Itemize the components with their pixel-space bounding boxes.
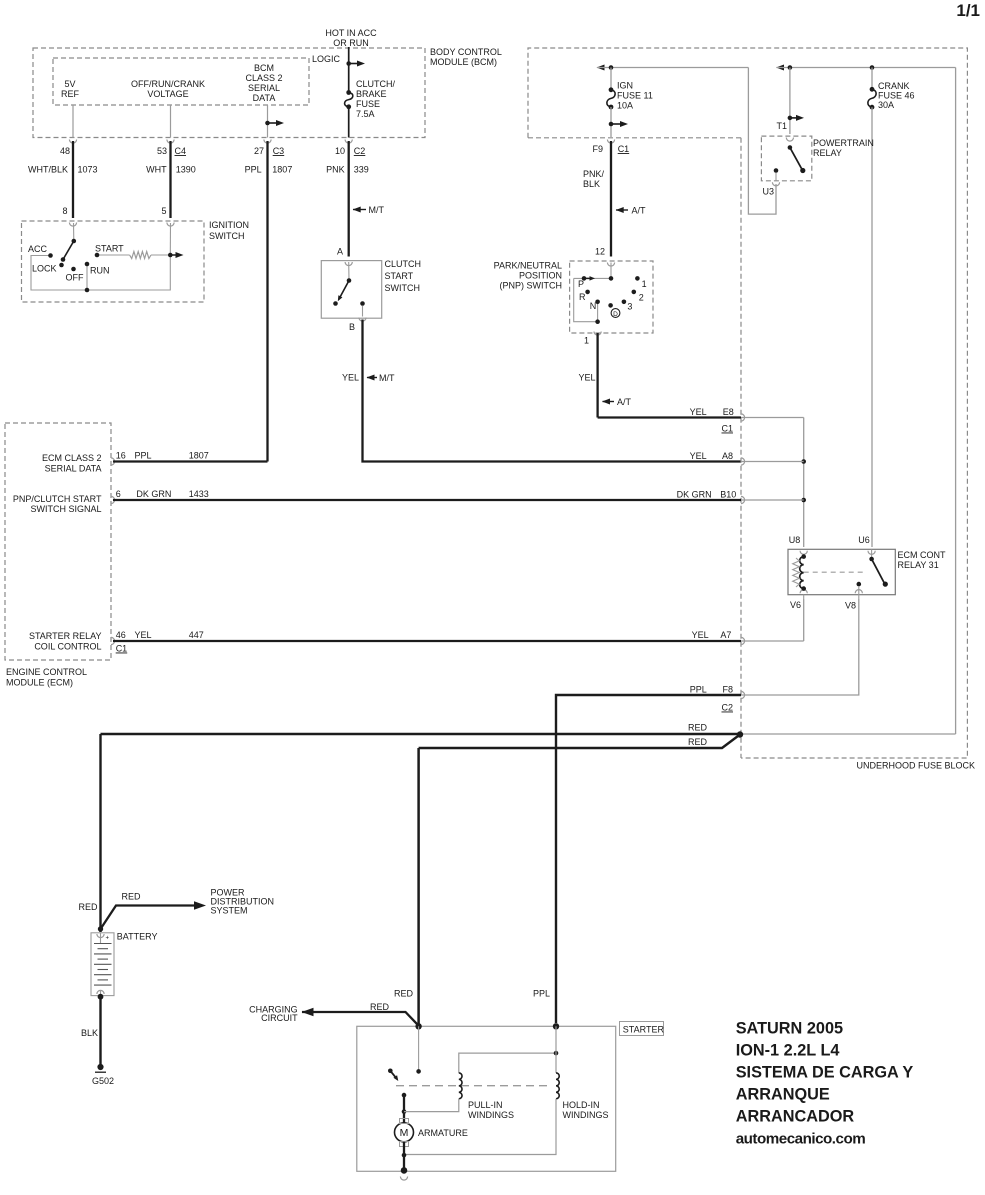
svg-text:C1: C1 (116, 644, 128, 654)
svg-text:447: 447 (189, 630, 204, 640)
svg-text:PARK/NEUTRAL: PARK/NEUTRAL (494, 261, 562, 271)
svg-text:V8: V8 (845, 601, 856, 611)
svg-text:SERIAL DATA: SERIAL DATA (45, 464, 102, 474)
svg-text:A/T: A/T (632, 206, 647, 216)
svg-text:B10: B10 (720, 490, 736, 500)
svg-text:VOLTAGE: VOLTAGE (147, 89, 188, 99)
svg-text:5V: 5V (64, 79, 75, 89)
svg-text:1073: 1073 (78, 165, 98, 175)
svg-text:A: A (337, 247, 343, 257)
svg-text:46: 46 (116, 630, 126, 640)
svg-text:PPL: PPL (245, 165, 262, 175)
svg-text:CLUTCH/: CLUTCH/ (356, 79, 396, 89)
svg-text:COIL CONTROL: COIL CONTROL (34, 642, 101, 652)
svg-text:SERIAL: SERIAL (248, 83, 280, 93)
svg-text:M/T: M/T (379, 373, 395, 383)
svg-text:LOCK: LOCK (32, 264, 57, 274)
svg-text:N: N (590, 301, 597, 311)
svg-text:27: 27 (254, 146, 264, 156)
svg-text:FUSE 11: FUSE 11 (617, 91, 653, 101)
svg-text:ARMATURE: ARMATURE (418, 1128, 468, 1138)
svg-text:ECM CLASS 2: ECM CLASS 2 (42, 453, 102, 463)
svg-text:BODY CONTROL: BODY CONTROL (430, 47, 502, 57)
svg-text:U6: U6 (858, 535, 870, 545)
svg-text:V6: V6 (790, 600, 801, 610)
svg-text:10A: 10A (617, 101, 633, 111)
svg-text:BCM: BCM (254, 63, 274, 73)
svg-text:WINDINGS: WINDINGS (468, 1110, 514, 1120)
svg-text:STARTER: STARTER (623, 1025, 665, 1035)
svg-text:PPL: PPL (690, 685, 707, 695)
svg-text:IGN: IGN (617, 81, 633, 91)
svg-text:MODULE (BCM): MODULE (BCM) (430, 57, 497, 67)
svg-text:RED: RED (370, 1002, 390, 1012)
svg-text:+: + (106, 936, 110, 942)
svg-text:UNDERHOOD FUSE BLOCK: UNDERHOOD FUSE BLOCK (856, 761, 975, 771)
svg-text:CLUTCH: CLUTCH (385, 259, 422, 269)
svg-text:YEL: YEL (690, 451, 707, 461)
svg-text:ENGINE CONTROL: ENGINE CONTROL (6, 667, 87, 677)
svg-text:C2: C2 (721, 703, 733, 713)
svg-text:30A: 30A (878, 100, 894, 110)
svg-text:A/T: A/T (617, 397, 632, 407)
svg-text:RED: RED (688, 737, 708, 747)
svg-text:POSITION: POSITION (519, 271, 562, 281)
svg-text:C2: C2 (354, 146, 366, 156)
svg-text:6: 6 (116, 489, 121, 499)
svg-text:48: 48 (60, 146, 70, 156)
svg-text:16: 16 (116, 451, 126, 461)
svg-text:PNP/CLUTCH START: PNP/CLUTCH START (13, 494, 102, 504)
svg-text:F8: F8 (722, 685, 733, 695)
svg-text:SWITCH: SWITCH (385, 283, 421, 293)
svg-text:1433: 1433 (189, 489, 209, 499)
svg-text:CIRCUIT: CIRCUIT (261, 1013, 298, 1023)
svg-text:DK GRN: DK GRN (136, 489, 171, 499)
svg-text:5: 5 (161, 206, 166, 216)
svg-text:PPL: PPL (533, 989, 550, 999)
svg-text:SWITCH: SWITCH (209, 231, 245, 241)
svg-text:SISTEMA DE CARGA Y: SISTEMA DE CARGA Y (736, 1064, 914, 1082)
svg-text:1390: 1390 (176, 165, 196, 175)
svg-text:PULL-IN: PULL-IN (468, 1100, 503, 1110)
svg-text:C4: C4 (175, 146, 187, 156)
svg-text:2: 2 (639, 293, 644, 303)
svg-text:RUN: RUN (90, 266, 110, 276)
svg-text:START: START (95, 244, 124, 254)
svg-text:PNK: PNK (326, 165, 345, 175)
svg-text:IGNITION: IGNITION (209, 220, 249, 230)
svg-text:POWERTRAIN: POWERTRAIN (813, 138, 874, 148)
svg-text:WHT: WHT (146, 165, 167, 175)
svg-text:automecanico.com: automecanico.com (736, 1131, 866, 1148)
svg-text:SATURN 2005: SATURN 2005 (736, 1020, 843, 1038)
svg-text:RED: RED (394, 989, 414, 999)
svg-text:C1: C1 (721, 424, 733, 434)
svg-text:REF: REF (61, 89, 80, 99)
svg-text:3: 3 (627, 302, 632, 312)
svg-text:CLASS 2: CLASS 2 (245, 73, 282, 83)
svg-text:M: M (400, 1127, 409, 1139)
svg-text:BATTERY: BATTERY (117, 932, 158, 942)
svg-text:WHT/BLK: WHT/BLK (28, 165, 68, 175)
svg-text:FUSE 46: FUSE 46 (878, 91, 915, 101)
svg-text:BLK: BLK (583, 179, 600, 189)
svg-text:10: 10 (335, 146, 345, 156)
svg-text:U8: U8 (789, 535, 801, 545)
svg-text:RED: RED (122, 892, 142, 902)
svg-text:F9: F9 (592, 144, 603, 154)
svg-text:HOLD-IN: HOLD-IN (563, 1100, 600, 1110)
svg-text:PNK/: PNK/ (583, 169, 605, 179)
svg-text:ION-1 2.2L L4: ION-1 2.2L L4 (736, 1042, 840, 1060)
svg-text:M/T: M/T (369, 205, 385, 215)
svg-text:8: 8 (62, 206, 67, 216)
svg-text:PPL: PPL (135, 451, 152, 461)
svg-text:339: 339 (354, 165, 369, 175)
svg-text:OFF/RUN/CRANK: OFF/RUN/CRANK (131, 79, 205, 89)
svg-text:BRAKE: BRAKE (356, 89, 387, 99)
svg-text:1807: 1807 (272, 165, 292, 175)
svg-text:1807: 1807 (189, 451, 209, 461)
svg-text:WINDINGS: WINDINGS (563, 1110, 609, 1120)
svg-text:YEL: YEL (342, 373, 359, 383)
svg-text:B: B (349, 322, 355, 332)
svg-text:1: 1 (642, 279, 647, 289)
svg-text:RELAY: RELAY (813, 148, 842, 158)
svg-text:RED: RED (78, 902, 98, 912)
svg-text:ACC: ACC (28, 244, 48, 254)
svg-text:RELAY 31: RELAY 31 (898, 560, 939, 570)
svg-text:7.5A: 7.5A (356, 109, 375, 119)
svg-text:1/1: 1/1 (956, 1, 980, 20)
svg-text:1: 1 (584, 336, 589, 346)
svg-text:P: P (578, 279, 584, 289)
svg-text:DATA: DATA (253, 93, 276, 103)
svg-text:DK GRN: DK GRN (677, 490, 712, 500)
svg-text:START: START (385, 271, 414, 281)
svg-text:U3: U3 (762, 187, 774, 197)
svg-text:MODULE (ECM): MODULE (ECM) (6, 678, 73, 688)
svg-text:D: D (613, 311, 618, 318)
svg-text:YEL: YEL (692, 630, 709, 640)
svg-text:BLK: BLK (81, 1028, 98, 1038)
svg-text:A7: A7 (720, 630, 731, 640)
svg-text:ARRANCADOR: ARRANCADOR (736, 1108, 855, 1126)
svg-text:OFF: OFF (66, 273, 84, 283)
svg-text:ECM CONT: ECM CONT (898, 550, 946, 560)
svg-text:G502: G502 (92, 1076, 114, 1086)
svg-text:A8: A8 (722, 451, 733, 461)
svg-text:E8: E8 (723, 407, 734, 417)
svg-text:(PNP) SWITCH: (PNP) SWITCH (500, 281, 563, 291)
svg-text:SWITCH SIGNAL: SWITCH SIGNAL (30, 504, 101, 514)
svg-text:OR RUN: OR RUN (333, 38, 369, 48)
svg-text:T1: T1 (776, 121, 787, 131)
svg-text:C3: C3 (273, 146, 285, 156)
svg-text:RED: RED (688, 723, 708, 733)
svg-text:YEL: YEL (135, 630, 152, 640)
svg-text:STARTER RELAY: STARTER RELAY (29, 631, 102, 641)
svg-text:C1: C1 (618, 144, 630, 154)
svg-text:YEL: YEL (578, 373, 595, 383)
svg-text:HOT IN ACC: HOT IN ACC (325, 28, 377, 38)
svg-text:LOGIC: LOGIC (312, 54, 341, 64)
svg-text:ARRANQUE: ARRANQUE (736, 1086, 830, 1104)
svg-text:53: 53 (157, 146, 167, 156)
svg-text:YEL: YEL (690, 407, 707, 417)
svg-text:R: R (579, 292, 586, 302)
svg-text:FUSE: FUSE (356, 99, 380, 109)
svg-text:SYSTEM: SYSTEM (211, 906, 248, 916)
svg-text:CRANK: CRANK (878, 81, 910, 91)
svg-text:12: 12 (595, 247, 605, 257)
